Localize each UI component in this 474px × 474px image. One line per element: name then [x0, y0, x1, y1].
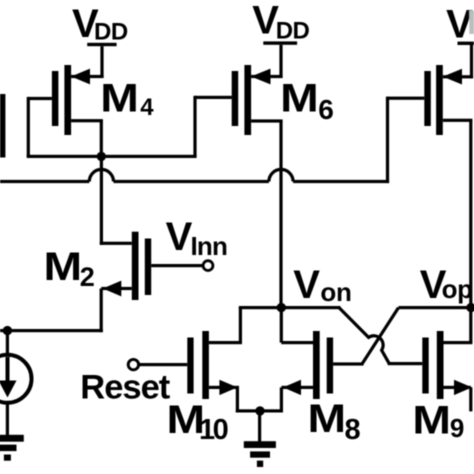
transistor M6 gate bar — [232, 71, 239, 126]
svg-text:4: 4 — [140, 94, 154, 121]
wire: dot to current source — [6, 333, 9, 356]
wire: riser from node down to M2 source lead — [100, 156, 103, 245]
wire: M8 drain lead — [281, 341, 313, 344]
wire: diagonal Vop to M8 gate — [362, 308, 399, 364]
transistor M6 channel bar — [244, 65, 251, 135]
wire: rail to ground stub — [258, 411, 261, 442]
wire: VDD stub to M4 source — [100, 46, 103, 78]
wire: M7 drain lead — [443, 119, 473, 122]
wire: M2 drain drop — [100, 289, 103, 333]
wire: M4 gate lead — [28, 97, 52, 100]
label M10 — [167, 398, 228, 446]
svg-text:Inn: Inn — [191, 231, 228, 261]
arrow: M4 source arrow (points into channel) — [71, 69, 90, 85]
wire: M9 source drop (cut at edge) — [469, 387, 472, 411]
arrow: current source internal arrow — [0, 357, 17, 398]
wire: Von to M10 drain horizontal — [239, 306, 281, 309]
label VDD 2 — [252, 0, 309, 45]
wire: M10 drain lead — [209, 341, 242, 344]
svg-text:M: M — [308, 397, 347, 441]
node: M4 drain / gate junction dot — [97, 152, 106, 161]
wire: current source to ground — [6, 403, 9, 436]
power VDD supply bar 2 — [263, 41, 297, 44]
power VDD supply bar 1 — [87, 43, 116, 46]
wire: M7 source lead — [443, 75, 473, 78]
wire: Reset gate lead — [139, 363, 187, 366]
wire: M8 source drop — [280, 387, 283, 411]
svg-text:Reset: Reset — [80, 368, 170, 406]
wire: M10 source lead — [209, 386, 239, 389]
svg-text:9: 9 — [450, 413, 464, 443]
wire: M4 source lead — [71, 75, 104, 78]
wire: horizontal net segment 3 — [293, 180, 389, 183]
current source circle — [0, 355, 32, 403]
wire: M10 source drop — [236, 387, 239, 412]
svg-text:V: V — [293, 263, 320, 307]
label M8 — [308, 397, 361, 446]
wire: horizontal net from left edge to M7 gate riser (segment 1) — [0, 180, 89, 183]
transistor M8 gate bar — [327, 338, 333, 394]
power VDD supply bar 3 — [458, 42, 474, 45]
label M6 — [280, 77, 334, 126]
node: tail current source junction dot — [3, 326, 12, 335]
transistor M7 channel bar — [436, 65, 443, 135]
wire hop over M6 drain column at x=281 — [269, 169, 293, 181]
wire: riser from horizontal net up to M7 gate lead — [386, 97, 389, 184]
label M2 — [44, 245, 95, 292]
wire: M9 drain lead — [444, 341, 473, 344]
arrow: M6 source arrow (points into channel) — [251, 69, 270, 85]
svg-text:M: M — [44, 245, 83, 289]
transistor M10 channel bar — [202, 331, 209, 399]
wire: Von drop to M8 drain — [280, 308, 283, 343]
wire: horizontal net segment 2 — [114, 180, 269, 183]
wire: M4 drain lead — [71, 119, 103, 122]
label M9 — [412, 399, 464, 443]
wire: M7 drain riser down to Vop node and M9 drain — [469, 120, 472, 342]
svg-text:V: V — [166, 215, 193, 259]
arrow: M8 source arrow (points left) — [283, 380, 301, 395]
wire: M6 gate riser — [193, 96, 196, 157]
transistor M4 gate bar — [52, 71, 59, 126]
terminal Reset open circle — [128, 359, 138, 369]
transistor M7 gate bar — [424, 71, 431, 126]
svg-text:op: op — [442, 274, 473, 304]
wire: M2 source lead — [100, 242, 132, 245]
wire hop over M4/M2 column at x=101.4 — [89, 169, 113, 181]
wire: M6 drain riser down to Von node — [279, 121, 282, 308]
transistor M10 gate bar — [187, 338, 193, 394]
wire: Vop tap horizontal — [399, 306, 471, 309]
node: common source junction dot — [255, 406, 264, 415]
svg-text:2: 2 — [80, 262, 95, 292]
wire: M2 drain lead — [101, 287, 132, 290]
wire: M7 gate lead — [388, 97, 425, 100]
wire: M4 drain riser down to node — [100, 121, 103, 157]
transistor M9 gate bar — [422, 338, 428, 394]
svg-text:DD: DD — [276, 18, 310, 45]
wire: M4 gate loop riser — [27, 97, 30, 156]
label VDD 1 — [72, 2, 128, 46]
wire: M6 source lead — [251, 75, 283, 78]
svg-text:6: 6 — [318, 94, 334, 125]
arrow: M7 source arrow (points into channel) — [443, 69, 462, 85]
svg-text:on: on — [320, 277, 351, 307]
wire: Von to crossing (horizontal) — [281, 306, 340, 309]
label M4 — [100, 77, 154, 121]
transistor M2 gate bar — [145, 239, 151, 296]
arrow: M10 source arrow (points right) — [219, 380, 237, 395]
arrow: M2 source arrow (points left at bend) — [103, 281, 122, 297]
svg-text:V: V — [446, 3, 473, 47]
wire: M8 source lead — [281, 386, 313, 389]
svg-text:M: M — [100, 77, 139, 121]
transistor M2 channel bar — [132, 232, 139, 300]
ground symbol (left, cut by edge) — [0, 435, 24, 461]
svg-text:8: 8 — [345, 414, 361, 446]
svg-text:DD: DD — [94, 19, 128, 46]
transistor M3 (partial, cut by image left edge) channel bar — [0, 94, 5, 158]
wire: M6 drain lead — [251, 119, 283, 122]
wire: crossing to M9 gate horizontal — [388, 362, 423, 365]
wire: M10 drain riser — [239, 308, 242, 343]
transistor M8 channel bar — [313, 331, 320, 399]
svg-text:10: 10 — [199, 414, 228, 446]
node Von junction dot — [277, 303, 286, 312]
wire: M6 gate lead — [195, 96, 232, 99]
label Vop — [420, 263, 473, 307]
wire: M9 source lead — [444, 386, 471, 389]
terminal VInn open circle — [203, 261, 213, 271]
ground symbol (middle) — [244, 441, 276, 467]
wire: VDD stub to M7 source — [470, 45, 473, 78]
arrow: M9 source arrow (points right) — [454, 380, 472, 395]
label VDD 3 (D subscript cut off, faint) — [446, 3, 474, 47]
transistor M4 channel bar — [64, 65, 71, 135]
wire: M4 gate-drain loop bottom / mirror bus to M6 gate riser — [27, 155, 197, 158]
label Von — [293, 263, 351, 307]
svg-text:M: M — [412, 399, 451, 443]
wire: diagonal Von to M9 gate (with hop over) — [339, 308, 389, 364]
label Reset — [80, 368, 170, 406]
wire: tail-node horizontal from left edge — [0, 329, 103, 332]
wire: crossing to M8 gate horizontal — [333, 362, 363, 365]
node Vop junction dot — [466, 303, 474, 312]
transistor M9 channel bar — [437, 331, 444, 399]
svg-text:M: M — [280, 77, 319, 121]
wire: M2 gate lead to VInn terminal — [151, 264, 203, 267]
wire: M10/M8 common source rail — [236, 409, 283, 412]
wire: VDD stub to M6 source — [279, 45, 282, 78]
label VInn — [166, 215, 227, 261]
